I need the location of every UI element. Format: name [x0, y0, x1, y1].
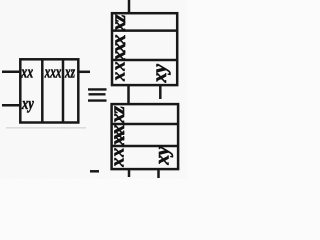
svg-text:xz: xz: [107, 106, 129, 124]
svg-text:xxx: xxx: [107, 125, 129, 147]
svg-text:xy: xy: [151, 146, 173, 166]
svg-text:xx: xx: [108, 148, 128, 168]
svg-text:xz: xz: [108, 14, 130, 32]
svg-text:xxx: xxx: [44, 63, 62, 82]
svg-text:xxx: xxx: [108, 35, 130, 62]
svg-text:xy: xy: [21, 94, 34, 113]
svg-text:xx: xx: [21, 63, 34, 82]
svg-text:xy: xy: [149, 64, 171, 84]
svg-text:xz: xz: [64, 63, 75, 82]
